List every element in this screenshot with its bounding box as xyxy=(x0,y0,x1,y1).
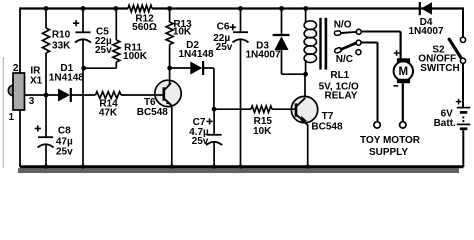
svg-text:47K: 47K xyxy=(99,108,118,119)
svg-text:1N4007: 1N4007 xyxy=(245,50,280,61)
svg-text:BC548: BC548 xyxy=(137,107,169,118)
svg-text:C8: C8 xyxy=(58,126,71,137)
svg-text:33K: 33K xyxy=(52,41,71,52)
svg-text:N/C: N/C xyxy=(336,54,353,65)
svg-text:RELAY: RELAY xyxy=(325,90,358,101)
svg-text:25v: 25v xyxy=(56,147,73,158)
svg-text:1: 1 xyxy=(9,112,15,123)
svg-text:1N4148: 1N4148 xyxy=(49,73,84,84)
svg-text:100K: 100K xyxy=(123,51,148,62)
svg-text:TOY MOTOR: TOY MOTOR xyxy=(360,135,421,146)
svg-text:C6: C6 xyxy=(217,21,230,32)
svg-text:560Ω: 560Ω xyxy=(132,22,157,33)
svg-text:25v: 25v xyxy=(95,45,112,56)
svg-text:3: 3 xyxy=(29,96,35,107)
svg-text:SWITCH: SWITCH xyxy=(420,63,459,74)
svg-text:10K: 10K xyxy=(173,27,192,38)
svg-text:10K: 10K xyxy=(253,126,272,137)
svg-text:M: M xyxy=(399,66,409,78)
svg-text:25v: 25v xyxy=(192,136,209,147)
svg-text:1N4148: 1N4148 xyxy=(178,49,213,60)
svg-text:X1: X1 xyxy=(30,75,43,86)
svg-text:Batt.: Batt. xyxy=(434,118,456,129)
svg-text:BC548: BC548 xyxy=(311,122,343,133)
svg-text:R10: R10 xyxy=(52,30,71,41)
svg-text:2: 2 xyxy=(13,63,19,74)
svg-text:25v: 25v xyxy=(216,42,233,53)
svg-text:1N4007: 1N4007 xyxy=(408,26,443,37)
svg-text:RL1: RL1 xyxy=(330,70,349,81)
svg-text:SUPPLY: SUPPLY xyxy=(369,147,408,158)
svg-text:N/O: N/O xyxy=(334,19,352,30)
